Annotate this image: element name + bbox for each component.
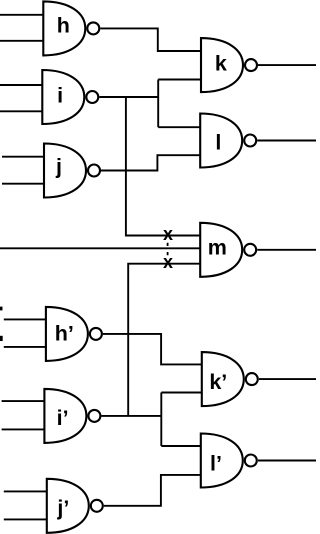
NAND gate m: [200, 223, 256, 277]
NAND gate k': [202, 352, 258, 406]
dashed connector between x marks: [167, 243, 169, 257]
wire to l input 1: [158, 126, 201, 128]
svg-text:i’: i’: [57, 406, 69, 430]
wire to k' input 2: [161, 392, 202, 394]
wire vertical k input 2 to l input 1: [157, 80, 159, 128]
wire h output to k input 1: [100, 28, 202, 51]
clipped input label mark 2 at left edge: [0, 336, 3, 341]
wire j input 1: [2, 156, 45, 158]
clipped input label mark 1 at left edge: [0, 307, 3, 311]
wire j' output to l' input 2: [104, 475, 201, 506]
wire to l' input 1: [161, 445, 201, 447]
NAND gate h': [46, 307, 102, 361]
wire i input 1: [0, 84, 43, 86]
svg-text:l’: l’: [210, 451, 222, 475]
wire i' input 1: [2, 400, 45, 402]
svg-text:h: h: [57, 13, 70, 37]
svg-text:k’: k’: [209, 370, 227, 394]
wire j' input 1: [4, 490, 48, 492]
NAND gate i: [42, 70, 98, 124]
NAND gate k: [201, 38, 257, 92]
NAND gate i': [44, 389, 100, 443]
svg-text:x: x: [163, 224, 173, 244]
wire k' output: [259, 378, 316, 380]
wire h input 1: [0, 14, 44, 16]
svg-text:k: k: [215, 52, 227, 76]
svg-text:i: i: [57, 83, 63, 107]
wire i input 2: [0, 110, 43, 112]
wire j output to l input 2: [101, 155, 201, 170]
NAND gate j': [47, 479, 103, 533]
wire l' output: [258, 460, 316, 462]
svg-text:j’: j’: [56, 496, 69, 520]
NAND gate h: [43, 1, 99, 55]
svg-text:l: l: [215, 131, 221, 155]
wire h' input 2: [4, 346, 47, 348]
NAND gate l': [201, 434, 257, 488]
wire m input 2 net from left edge: [0, 247, 201, 249]
wire i' output branch up to m input 3: [128, 264, 201, 416]
wire vertical k' input 2 to l' input 1: [160, 393, 162, 447]
wire i output to junction: [99, 96, 158, 98]
svg-text:j: j: [55, 155, 62, 179]
wire h' input 1: [4, 318, 47, 320]
wire j' input 2: [4, 518, 48, 520]
wire i' input 2: [2, 428, 45, 430]
wire h' output to k' input 1: [103, 334, 202, 365]
svg-text:m: m: [208, 236, 227, 260]
wire l output: [257, 140, 316, 142]
NAND gate j: [44, 144, 100, 198]
wire m output: [257, 249, 316, 251]
wire k output: [258, 64, 316, 66]
svg-text:h’: h’: [55, 321, 74, 345]
NAND gate l: [200, 114, 256, 168]
wire h input 2: [0, 40, 44, 42]
wire i output branch down to m input 1: [126, 97, 201, 236]
wire j input 2: [2, 183, 45, 185]
wire to k input 2: [158, 79, 201, 81]
wire i' output to junction: [101, 415, 161, 417]
